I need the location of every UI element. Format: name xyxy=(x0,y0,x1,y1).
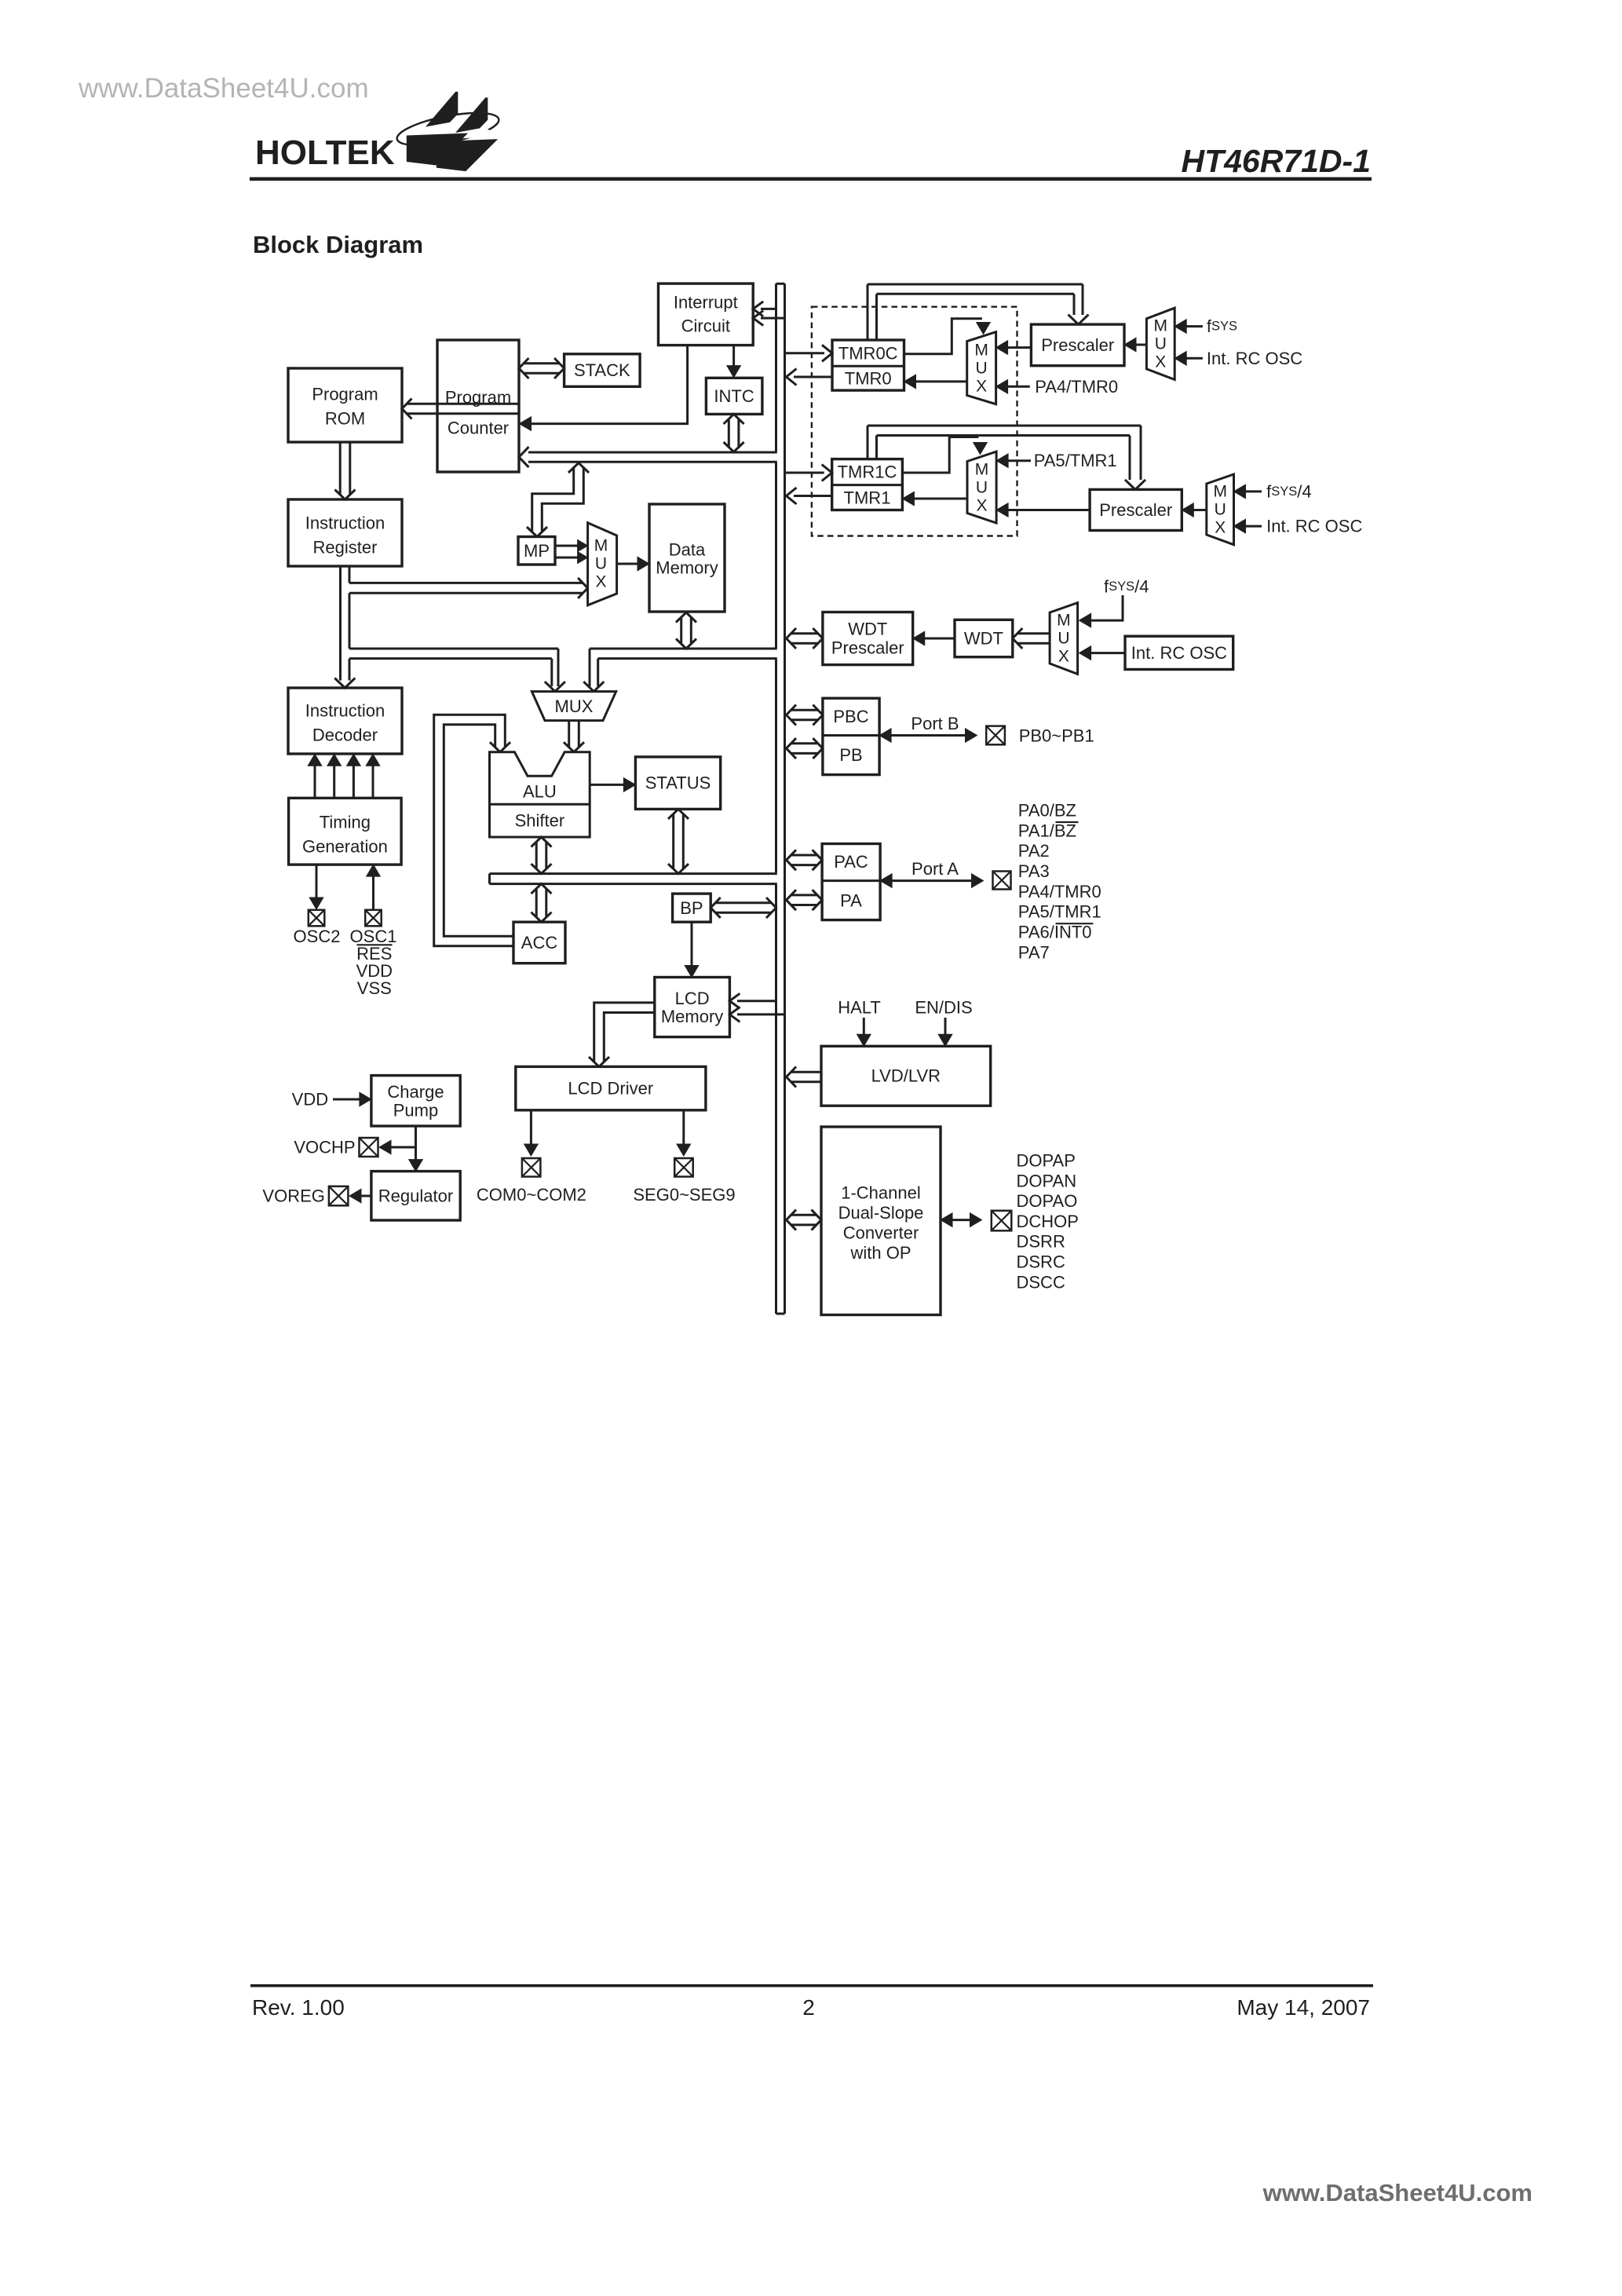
mux TMR0 MUX xyxy=(967,332,996,404)
header rule xyxy=(250,177,1372,181)
wire IR line right mid xyxy=(349,593,351,649)
svg-text:ROM: ROM xyxy=(325,409,365,429)
svg-text:DSRC: DSRC xyxy=(1017,1252,1065,1272)
footer Rev. 1.00 xyxy=(252,1995,345,2020)
label fsys/4 (timer1) xyxy=(1266,481,1312,501)
logo slash 1 upper xyxy=(426,92,458,127)
box TMR1C / TMR1 xyxy=(832,459,903,510)
svg-text:EN/DIS: EN/DIS xyxy=(915,998,972,1018)
svg-text:1-Channel: 1-Channel xyxy=(841,1183,921,1203)
svg-text:U: U xyxy=(595,555,607,573)
wire fsys MUX0 to Prescaler0 xyxy=(1124,338,1146,352)
wire bus to LCD Memory upper xyxy=(729,993,776,1008)
svg-text:DCHOP: DCHOP xyxy=(1017,1212,1079,1231)
wire TMR0C load loop to Prescaler0 xyxy=(868,284,1089,340)
wire Port A xyxy=(880,874,983,888)
label PA1/BZ (BZ overline) xyxy=(1018,821,1079,840)
svg-text:M: M xyxy=(975,461,989,479)
svg-text:2: 2 xyxy=(802,1995,815,2020)
svg-text:Int. RC OSC: Int. RC OSC xyxy=(1131,643,1227,663)
label DSRC xyxy=(1017,1252,1065,1272)
mux data memory MUX xyxy=(588,523,617,605)
wire MP to data MUX lower xyxy=(555,552,588,564)
svg-text:TMR1C: TMR1C xyxy=(838,462,897,482)
svg-text:U: U xyxy=(1215,501,1226,519)
wire STATUS to S-bus xyxy=(668,809,689,873)
svg-text:U: U xyxy=(1155,335,1167,353)
logo slash 2 lower xyxy=(437,139,498,171)
pin VOCHP xyxy=(360,1138,378,1157)
label VDD xyxy=(356,961,393,981)
pin OSC1 xyxy=(365,910,382,927)
svg-text:Generation: Generation xyxy=(302,837,388,857)
wire Charge Pump to Regulator xyxy=(409,1126,423,1172)
label HALT xyxy=(838,998,881,1018)
svg-text:www.DataSheet4U.com: www.DataSheet4U.com xyxy=(1262,2179,1532,2206)
svg-text:Rev. 1.00: Rev. 1.00 xyxy=(252,1995,345,2020)
wire IR line right lower xyxy=(349,659,351,681)
svg-text:DOPAN: DOPAN xyxy=(1017,1171,1077,1190)
pin OSC2 xyxy=(309,910,325,927)
label OSC2 xyxy=(294,927,341,946)
svg-text:U: U xyxy=(1058,630,1069,648)
wire bus to PBC xyxy=(787,705,823,726)
wire fsys/4 input to MUX1 xyxy=(1234,484,1262,499)
svg-text:DSRR: DSRR xyxy=(1017,1232,1065,1252)
wire PA5/TMR1 to TMR1 MUX xyxy=(996,454,1031,468)
wire HALT to LVD/LVR xyxy=(857,1018,871,1046)
logo slash 1 lower xyxy=(407,133,468,166)
pin SEG0~SEG9 xyxy=(674,1158,693,1177)
label VOREG xyxy=(262,1186,324,1206)
wire bus to TMR0C xyxy=(785,345,833,361)
svg-text:LCD Driver: LCD Driver xyxy=(568,1079,653,1099)
wire converter to DCHOP pins xyxy=(941,1213,982,1227)
label RES (active low) xyxy=(356,944,392,963)
svg-text:Dual-Slope: Dual-Slope xyxy=(838,1203,924,1223)
box Instruction Register xyxy=(288,499,402,566)
svg-text:U: U xyxy=(976,479,988,497)
dashed timer block boundary xyxy=(812,307,1017,536)
svg-text:U: U xyxy=(976,360,988,378)
box TMR0C / TMR0 xyxy=(832,340,904,390)
mux ALU MUX xyxy=(532,692,616,721)
wire bus pair to PC lower line xyxy=(528,461,777,463)
label DSRR xyxy=(1017,1232,1065,1252)
wire MP to data MUX upper xyxy=(555,540,588,552)
logo slash gap white bands xyxy=(404,120,501,141)
box Regulator xyxy=(371,1172,460,1220)
svg-text:SEG0~SEG9: SEG0~SEG9 xyxy=(633,1185,735,1205)
svg-text:M: M xyxy=(1154,317,1168,335)
wire Interrupt Circuit to INTC xyxy=(727,345,741,378)
svg-text:ACC: ACC xyxy=(521,933,558,952)
footer date May 14, 2007 xyxy=(1237,1995,1370,2020)
label EN/DIS xyxy=(915,998,972,1018)
wire bus to converter xyxy=(787,1210,822,1230)
watermark www.DataSheet4U.com (top) xyxy=(78,73,369,104)
bus top cap xyxy=(776,283,785,285)
svg-text:fSYS: fSYS xyxy=(1207,316,1237,336)
label PA2 xyxy=(1018,841,1050,861)
svg-text:COM0~COM2: COM0~COM2 xyxy=(477,1185,586,1205)
wire bus pair A right lower xyxy=(598,657,777,660)
wire Int RC OSC input to MUX1 xyxy=(1234,519,1262,533)
svg-text:Prescaler: Prescaler xyxy=(1041,335,1114,355)
svg-text:X: X xyxy=(1058,648,1069,666)
heading Block Diagram xyxy=(253,231,423,258)
wire bus to WDT Prescaler xyxy=(787,628,823,649)
svg-text:MUX: MUX xyxy=(555,696,594,716)
svg-text:PAC: PAC xyxy=(834,852,868,872)
label DOPAN xyxy=(1017,1171,1077,1190)
svg-text:Memory: Memory xyxy=(656,558,718,578)
svg-text:Charge: Charge xyxy=(387,1082,444,1102)
label PA6/INT0 (INT0 overline) xyxy=(1018,923,1094,942)
box PAC / PA xyxy=(822,844,880,920)
logo ellipse xyxy=(395,107,502,152)
svg-text:X: X xyxy=(1155,353,1166,371)
svg-text:VOCHP: VOCHP xyxy=(294,1138,355,1157)
svg-text:STATUS: STATUS xyxy=(645,773,711,793)
svg-text:PA2: PA2 xyxy=(1018,841,1050,861)
wire Timing Generation to OSC2 xyxy=(309,865,323,909)
footer rule xyxy=(250,1984,1373,1987)
wire Int RC OSC input to MUX0 xyxy=(1174,352,1203,366)
svg-text:M: M xyxy=(974,342,988,360)
pin COM0~COM2 xyxy=(522,1158,541,1177)
label DOPAO xyxy=(1017,1191,1078,1211)
svg-text:X: X xyxy=(1215,519,1226,537)
label SEG0~SEG9 xyxy=(633,1185,735,1205)
wire VDD to Charge Pump xyxy=(333,1092,371,1106)
box Prescaler1 xyxy=(1090,489,1182,530)
label COM0~COM2 xyxy=(477,1185,586,1205)
svg-text:HALT: HALT xyxy=(838,998,881,1018)
wire TMR1 to bus xyxy=(787,488,832,504)
label Int. RC OSC (top) xyxy=(1207,349,1302,368)
wire EN/DIS to LVD/LVR xyxy=(938,1018,952,1046)
wire Int RC OSC to WDT MUX xyxy=(1080,646,1125,660)
svg-text:Shifter: Shifter xyxy=(515,811,565,831)
wire LVD/LVR to bus xyxy=(787,1067,822,1088)
mux fsys MUX0 xyxy=(1146,308,1174,379)
svg-text:PA4/TMR0: PA4/TMR0 xyxy=(1035,377,1118,397)
wire fsys4 MUX1 to Prescaler1 xyxy=(1182,503,1207,517)
svg-text:M: M xyxy=(1057,612,1071,630)
svg-text:Prescaler: Prescaler xyxy=(831,638,904,658)
label PA4/TMR0 xyxy=(1035,377,1118,397)
svg-text:Memory: Memory xyxy=(661,1007,723,1026)
svg-text:with OP: with OP xyxy=(849,1243,911,1263)
wire BP to LCD Memory xyxy=(685,922,699,977)
wire LCD Driver to SEG pins xyxy=(677,1110,691,1156)
wire bus to LCD Memory lower xyxy=(729,1007,784,1022)
wire TMR1 MUX to TMR1 xyxy=(902,492,967,506)
svg-text:X: X xyxy=(976,497,987,515)
svg-text:HT46R71D-1: HT46R71D-1 xyxy=(1181,143,1371,179)
wire PC to STACK xyxy=(519,358,564,378)
svg-text:May 14, 2007: May 14, 2007 xyxy=(1237,1995,1370,2020)
pin VOREG xyxy=(329,1186,349,1206)
svg-text:Instruction: Instruction xyxy=(305,514,385,533)
label PA5/TMR1 xyxy=(1034,451,1117,470)
wire bus pair A right upper xyxy=(590,648,777,650)
wire Regulator to VOREG xyxy=(349,1189,371,1203)
box 1-Channel Dual-Slope Converter with OP xyxy=(821,1127,941,1315)
svg-text:VSS: VSS xyxy=(357,978,392,998)
wire IR line left xyxy=(339,566,342,681)
wire INTC to bus pair xyxy=(724,414,744,452)
bus left line seg 4 xyxy=(775,885,777,1314)
box Data Memory xyxy=(649,504,725,612)
label Port B xyxy=(911,714,959,733)
svg-text:PA5/TMR1: PA5/TMR1 xyxy=(1018,902,1101,922)
wire data MUX to Data Memory xyxy=(617,557,649,571)
wire Program ROM to Instruction Register xyxy=(335,442,356,499)
wire bus to PA xyxy=(787,890,823,910)
svg-text:Register: Register xyxy=(313,538,378,558)
wire Timing Generation to Instruction Decoder 4 xyxy=(366,754,380,798)
label VDD (charge pump) xyxy=(292,1090,328,1110)
box Instruction Decoder xyxy=(288,688,402,754)
watermark www.DataSheet4U.com (bottom) xyxy=(1262,2179,1532,2206)
svg-text:Converter: Converter xyxy=(843,1223,919,1243)
svg-text:TMR0: TMR0 xyxy=(845,368,892,388)
head bus pair at PC xyxy=(519,447,529,467)
svg-text:PBC: PBC xyxy=(833,707,868,726)
wire bus to PAC xyxy=(787,850,823,870)
label VOCHP xyxy=(294,1138,355,1157)
box LCD Memory xyxy=(655,978,730,1037)
svg-text:HOLTEK: HOLTEK xyxy=(255,133,395,172)
wire Timing Generation to Instruction Decoder 3 xyxy=(347,754,361,798)
svg-text:TMR1: TMR1 xyxy=(844,488,891,507)
svg-text:Int. RC OSC: Int. RC OSC xyxy=(1207,349,1302,368)
label PA0/BZ xyxy=(1018,801,1076,821)
wire Timing Generation to Instruction Decoder 2 xyxy=(327,754,342,798)
wire bus pair A left upper xyxy=(349,648,558,650)
wire WDT to WDT Prescaler xyxy=(913,631,955,645)
wire Data Memory to bus pair A xyxy=(676,612,696,649)
wire bus pair to PC upper line xyxy=(528,452,777,452)
mux fsys4 MUX1 xyxy=(1207,474,1234,545)
label Int. RC OSC (timer1) xyxy=(1266,517,1362,536)
label fsys/4 (WDT) xyxy=(1104,577,1149,597)
box LVD/LVR xyxy=(821,1046,991,1106)
title HT46R71D-1 xyxy=(1181,143,1371,179)
wire bus pair A left lower xyxy=(349,657,552,660)
label PA5/TMR1 xyxy=(1018,902,1101,922)
wire Prescaler1 to TMR1 MUX xyxy=(996,503,1090,517)
wire Prescaler0 to TMR0 MUX xyxy=(996,341,1032,355)
svg-text:fSYS/4: fSYS/4 xyxy=(1104,577,1149,597)
svg-text:Program: Program xyxy=(312,385,378,404)
mux WDT MUX xyxy=(1050,603,1078,675)
svg-text:PB0~PB1: PB0~PB1 xyxy=(1019,726,1094,745)
svg-text:Int. RC OSC: Int. RC OSC xyxy=(1266,517,1362,536)
svg-text:MP: MP xyxy=(524,541,550,561)
svg-text:Interrupt: Interrupt xyxy=(674,293,738,313)
mux TMR1 MUX xyxy=(967,452,996,523)
svg-text:Counter: Counter xyxy=(448,419,509,438)
box MP xyxy=(518,537,555,565)
box Program Counter xyxy=(437,340,519,472)
svg-text:VDD: VDD xyxy=(292,1090,328,1110)
svg-text:PA5/TMR1: PA5/TMR1 xyxy=(1034,451,1117,470)
svg-text:Circuit: Circuit xyxy=(681,316,730,336)
label PA4/TMR0 xyxy=(1018,882,1101,901)
wire ALU MUX to ALU xyxy=(564,721,584,752)
logo slash 2 upper xyxy=(455,97,488,133)
box PBC / PB xyxy=(823,698,879,774)
svg-text:M: M xyxy=(594,537,608,555)
svg-text:PA7: PA7 xyxy=(1018,942,1050,962)
svg-text:M: M xyxy=(1213,483,1227,501)
wire Charge Pump to VOCHP xyxy=(379,1140,416,1154)
wire WDT MUX to WDT xyxy=(1013,628,1050,649)
box STATUS xyxy=(635,757,720,810)
box Prescaler0 xyxy=(1031,324,1124,366)
wire bus to TMR1C xyxy=(785,465,832,481)
wire ACC to ALU loop xyxy=(434,715,513,946)
bus left line seg 3 xyxy=(775,660,777,872)
svg-text:PA0/BZ: PA0/BZ xyxy=(1018,801,1076,821)
pin PB0~PB1 xyxy=(986,726,1005,745)
wire BP to bus xyxy=(711,898,776,918)
svg-text:INTC: INTC xyxy=(714,386,754,406)
svg-text:TMR0C: TMR0C xyxy=(838,343,898,363)
svg-text:WDT: WDT xyxy=(964,629,1003,649)
wire OSC1 to Timing Generation xyxy=(367,865,381,909)
svg-text:Prescaler: Prescaler xyxy=(1099,500,1172,520)
svg-text:OSC2: OSC2 xyxy=(294,927,341,946)
svg-text:www.DataSheet4U.com: www.DataSheet4U.com xyxy=(78,73,369,104)
svg-text:Regulator: Regulator xyxy=(378,1186,453,1206)
wire TMR1C to TMR1 MUX xyxy=(902,437,987,473)
svg-text:BP: BP xyxy=(680,898,703,918)
svg-text:DOPAP: DOPAP xyxy=(1017,1151,1076,1171)
label DCHOP xyxy=(1017,1212,1079,1231)
wire TMR1C load loop to Prescaler1 xyxy=(868,426,1145,489)
svg-text:X: X xyxy=(595,573,606,591)
svg-text:DSCC: DSCC xyxy=(1017,1272,1065,1292)
label DSCC xyxy=(1017,1272,1065,1292)
label OSC1 xyxy=(350,927,397,946)
label PA7 xyxy=(1018,942,1050,962)
box Charge Pump xyxy=(371,1076,460,1126)
box INTC xyxy=(706,378,762,414)
box Program ROM xyxy=(288,368,402,442)
wire S-bus strip xyxy=(490,874,777,884)
wire ALU to STATUS xyxy=(590,778,635,792)
wire TMR0 to bus xyxy=(787,369,833,386)
svg-text:PA6/INT0: PA6/INT0 xyxy=(1018,923,1092,942)
label PB0~PB1 xyxy=(1019,726,1094,745)
wire bus to Interrupt Circuit lower xyxy=(753,311,784,326)
box WDT xyxy=(955,620,1013,656)
box Timing Generation xyxy=(289,798,402,865)
wire TMR0 MUX to TMR0 xyxy=(904,375,967,389)
box Interrupt Circuit xyxy=(659,283,754,345)
wire Timing Generation to Instruction Decoder 1 xyxy=(308,754,322,798)
box BP xyxy=(673,894,711,922)
svg-text:LCD: LCD xyxy=(675,989,710,1008)
wire LCD Memory to LCD Driver xyxy=(589,1003,655,1067)
svg-text:VOREG: VOREG xyxy=(262,1186,324,1206)
wire ALU MUX branch 1 xyxy=(545,649,565,692)
svg-text:PA4/TMR0: PA4/TMR0 xyxy=(1018,882,1101,901)
wire PC pair to MP xyxy=(527,463,589,537)
label Port A xyxy=(911,859,959,879)
wire IR to data MUX pair xyxy=(349,578,588,598)
wire Interrupt Circuit to PC xyxy=(520,345,688,431)
pin converter pins xyxy=(992,1211,1012,1231)
shape ALU with Shifter xyxy=(490,752,590,837)
wire bus to PB xyxy=(787,738,823,759)
wire Port B xyxy=(879,729,977,743)
svg-text:DOPAO: DOPAO xyxy=(1017,1191,1078,1211)
svg-text:STACK: STACK xyxy=(574,360,630,380)
head IR line to Instruction Decoder xyxy=(334,678,355,689)
wire PC to Program ROM xyxy=(402,399,519,419)
logo HOLTEK wordmark xyxy=(255,133,395,172)
svg-text:ALU: ALU xyxy=(523,782,557,802)
svg-text:X: X xyxy=(976,378,987,396)
wire IR line right upper xyxy=(349,566,351,583)
svg-text:LVD/LVR: LVD/LVR xyxy=(871,1066,941,1086)
svg-text:PA3: PA3 xyxy=(1018,861,1050,881)
label fsys xyxy=(1207,316,1237,336)
svg-text:Pump: Pump xyxy=(393,1101,438,1121)
wire Shifter to S-bus xyxy=(532,837,552,874)
box ACC xyxy=(513,922,565,963)
box STACK xyxy=(564,354,641,387)
label DOPAP xyxy=(1017,1151,1076,1171)
svg-text:Decoder: Decoder xyxy=(312,726,378,745)
svg-text:PA: PA xyxy=(840,891,862,911)
svg-text:WDT: WDT xyxy=(848,620,887,639)
box LCD Driver xyxy=(516,1066,706,1110)
bus right line xyxy=(784,283,786,1314)
wire LCD Driver to COM pins xyxy=(524,1110,539,1156)
svg-text:PB: PB xyxy=(839,745,862,765)
svg-text:Data: Data xyxy=(669,540,706,560)
svg-text:Port B: Port B xyxy=(911,714,959,733)
bus left line seg 1 xyxy=(775,283,777,451)
wire PA4/TMR0 to TMR0 MUX xyxy=(996,380,1030,394)
footer page number 2 xyxy=(802,1995,815,2020)
wire ALU MUX branch 2 xyxy=(583,649,604,692)
box Int. RC OSC (WDT) xyxy=(1125,636,1233,669)
svg-text:Block Diagram: Block Diagram xyxy=(253,231,423,258)
label VSS xyxy=(357,978,392,998)
bus left line seg 2 xyxy=(775,462,777,647)
bus bottom cap xyxy=(776,1313,785,1315)
svg-text:fSYS/4: fSYS/4 xyxy=(1266,481,1312,501)
svg-text:PA1/BZ: PA1/BZ xyxy=(1018,821,1076,840)
svg-text:Instruction: Instruction xyxy=(305,701,385,721)
wire S-bus to ACC xyxy=(532,884,552,923)
svg-text:Port A: Port A xyxy=(911,859,959,879)
wire TMR0C to TMR0 MUX xyxy=(904,319,991,354)
pin PA pins xyxy=(993,872,1011,890)
wire fsys input to MUX0 xyxy=(1174,320,1203,334)
wire bus to Interrupt Circuit upper xyxy=(753,302,776,316)
box WDT Prescaler xyxy=(823,612,913,665)
svg-text:Timing: Timing xyxy=(320,813,371,832)
wire fsys/4 to WDT MUX xyxy=(1080,595,1123,627)
